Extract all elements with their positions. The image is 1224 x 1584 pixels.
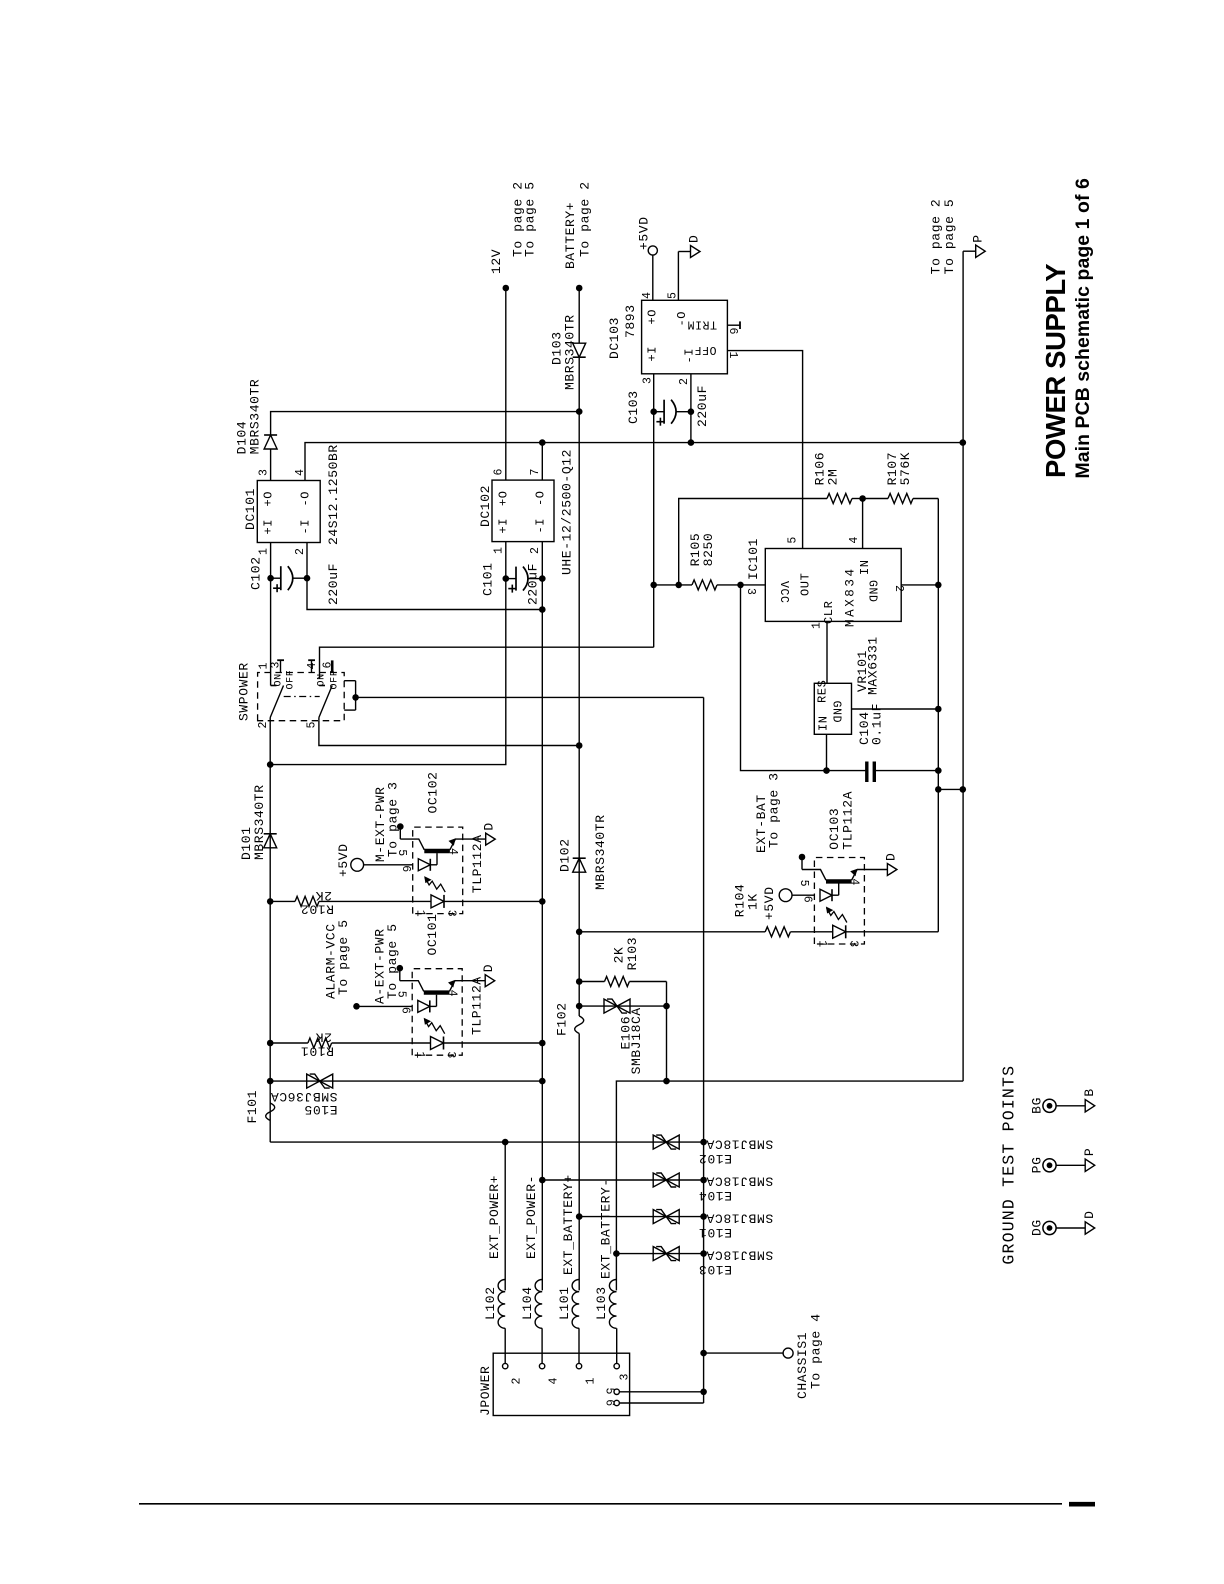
svg-text:P: P [971, 234, 986, 242]
svg-text:MBRS340TR: MBRS340TR [248, 379, 263, 455]
svg-text:6: 6 [726, 328, 739, 336]
junction E104 / EXT_POWER- [539, 1177, 546, 1184]
junction chassis stub [700, 1350, 707, 1357]
footer rule [139, 1503, 1062, 1505]
svg-text:POWER SUPPLY: POWER SUPPLY [1040, 264, 1071, 478]
wire +BAT node to DC103 +I [653, 374, 655, 647]
svg-text:F102: F102 [555, 1002, 570, 1036]
svg-text:SMBJ18CA: SMBJ18CA [706, 1248, 773, 1263]
svg-text:MBRS340TR: MBRS340TR [252, 784, 267, 860]
svg-text:3: 3 [445, 910, 458, 918]
svg-text:R103: R103 [625, 937, 640, 971]
TVS diode E106 [579, 1005, 666, 1007]
svg-text:L103: L103 [594, 1286, 609, 1320]
wire DC101 +O / diode D104 branch [270, 449, 272, 481]
fuse F102 [575, 1016, 584, 1034]
svg-text:7893: 7893 [623, 304, 638, 338]
wire switch pin1 to DC101 +I [270, 543, 272, 673]
wire JPOWER pin6 to chassis rail [619, 1402, 703, 1404]
switch common bracket to chassis [344, 709, 355, 711]
supervisor IC101 (MAX834) [744, 536, 905, 629]
svg-text:220uF: 220uF [526, 563, 541, 605]
optocoupler OC103 [797, 853, 899, 948]
svg-text:3: 3 [619, 1373, 632, 1381]
svg-text:2: 2 [529, 546, 542, 554]
svg-text:3: 3 [846, 940, 859, 948]
svg-text:1: 1 [414, 910, 427, 918]
svg-text:2M: 2M [825, 469, 840, 486]
wire VR101 IN stub [826, 734, 828, 770]
wire VR101 RES to IC101 CLR [826, 621, 828, 683]
svg-text:+I: +I [646, 346, 660, 362]
inductor L102 [498, 1280, 505, 1329]
svg-text:IN: IN [858, 559, 872, 575]
TVS diode E103 [616, 1253, 703, 1255]
svg-text:4: 4 [445, 990, 458, 998]
wire BATTERY+ rail y=579 [578, 1034, 580, 1291]
TVS diode E105 [270, 1080, 542, 1082]
wire GND to P link [938, 788, 963, 790]
svg-text:4: 4 [848, 536, 861, 544]
svg-text:EXT_POWER-: EXT_POWER- [524, 1175, 539, 1259]
svg-text:IN: IN [817, 715, 831, 731]
power +5VD (OC103) [779, 889, 792, 902]
test point BG [1043, 1099, 1056, 1112]
net flag D (DC103 -O) [677, 252, 679, 301]
junction R106/R107/IN [859, 495, 866, 502]
svg-text:DC103: DC103 [607, 317, 622, 359]
svg-text:6: 6 [399, 865, 412, 873]
resistor R107 [863, 498, 888, 500]
svg-text:SMBJ18CA: SMBJ18CA [629, 1007, 644, 1074]
wire chassis rail riser [356, 696, 704, 698]
svg-text:GND: GND [830, 701, 843, 724]
svg-text:-O: -O [299, 491, 313, 507]
wire EXT_POWER+ y=505 [504, 1142, 506, 1290]
svg-text:TLP112A: TLP112A [470, 976, 485, 1035]
wire VR101 GND stub [852, 708, 939, 710]
svg-text:To page 3: To page 3 [386, 781, 401, 857]
svg-text:C102: C102 [249, 556, 264, 590]
svg-text:+O: +O [262, 491, 276, 507]
svg-text:5: 5 [306, 721, 319, 729]
svg-text:1: 1 [815, 940, 828, 948]
svg-text:L102: L102 [483, 1286, 498, 1320]
svg-text:4: 4 [294, 468, 307, 476]
fuse F101 [266, 1103, 275, 1121]
resistor R103 [579, 981, 604, 983]
wire JPOWER pin5 to chassis rail [619, 1391, 703, 1393]
node 12V [503, 285, 510, 292]
optocoupler OC102 [395, 822, 497, 917]
svg-text:+I: +I [497, 518, 511, 534]
svg-text:4: 4 [641, 291, 654, 299]
footer page dash [1069, 1502, 1095, 1507]
wire GND line y=938 [937, 499, 939, 932]
wire EXT_BATTERY- y=616 [616, 1081, 963, 1290]
svg-text:F101: F101 [245, 1090, 260, 1124]
wire E106/R103 to ground link [666, 982, 668, 1082]
svg-text:6: 6 [493, 468, 506, 476]
svg-text:R102: R102 [300, 902, 334, 917]
svg-text:5: 5 [797, 880, 810, 888]
net flag P [963, 250, 976, 252]
svg-text:To page 5: To page 5 [385, 923, 400, 999]
svg-text:1: 1 [258, 547, 271, 555]
switch mechanical link [284, 696, 320, 698]
wire JPOWER pin4 to L104 [541, 1328, 543, 1363]
svg-text:MBRS340TR: MBRS340TR [563, 314, 578, 390]
svg-text:C103: C103 [626, 390, 641, 424]
TVS diode E101 [579, 1216, 703, 1218]
pin 6 TRIM stub [727, 324, 740, 326]
capacitor C103 [654, 411, 664, 413]
svg-text:SMBJ18CA: SMBJ18CA [706, 1174, 773, 1189]
svg-text:C101: C101 [481, 562, 496, 596]
node ALARM-VCC [353, 1003, 360, 1010]
svg-text:B: B [1082, 1088, 1097, 1096]
test point DG [1043, 1221, 1056, 1234]
wire JPOWER pin2 to L102 [504, 1328, 506, 1363]
svg-text:+5VD: +5VD [336, 843, 351, 877]
svg-text:2: 2 [892, 585, 905, 593]
svg-text:BATTERY+: BATTERY+ [563, 202, 578, 269]
svg-text:3: 3 [270, 661, 283, 669]
svg-text:+I: +I [262, 519, 276, 535]
svg-text:MBRS340TR: MBRS340TR [593, 814, 608, 890]
svg-text:4: 4 [848, 878, 861, 886]
diode D103 [573, 343, 586, 357]
wire OC101 LED return to ground rail [462, 1042, 542, 1044]
svg-text:D: D [482, 822, 497, 830]
svg-text:+O: +O [497, 490, 511, 506]
svg-text:2K: 2K [315, 888, 332, 903]
svg-text:D: D [687, 235, 702, 243]
svg-text:DC101: DC101 [243, 488, 258, 530]
wire IC101 IN to R106/R107 [862, 499, 864, 549]
svg-text:SMBJ18CA: SMBJ18CA [706, 1137, 773, 1152]
svg-text:4: 4 [306, 662, 319, 670]
test point PG [1043, 1159, 1056, 1172]
svg-text:-O: -O [534, 490, 548, 506]
svg-text:SMBJ18CA: SMBJ18CA [706, 1211, 773, 1226]
inductor L101 [572, 1280, 579, 1329]
wire DC103 -I [690, 374, 692, 443]
junction 12V feed [267, 761, 274, 768]
resistor R105 [654, 584, 692, 586]
wire JPOWER pin3 to L103 [616, 1328, 618, 1363]
power +5VD (DC103) [652, 255, 654, 300]
svg-text:-I: -I [299, 519, 313, 535]
TVS diode E104 [542, 1179, 703, 1181]
voltage monitor VR101 (MAX6331) [814, 680, 851, 735]
svg-text:BG: BG [1029, 1097, 1044, 1114]
optocoupler OC101 [395, 964, 497, 1059]
svg-text:2K: 2K [315, 1030, 332, 1045]
svg-text:6: 6 [603, 1399, 616, 1407]
svg-text:OFF: OFF [286, 670, 297, 690]
svg-text:OFF: OFF [330, 670, 341, 690]
wire DC101 -O rail (to P net) [305, 443, 963, 481]
svg-text:DG: DG [1029, 1219, 1044, 1236]
svg-text:1: 1 [811, 621, 824, 629]
svg-text:To page 5: To page 5 [942, 199, 957, 275]
capacitor C101 [506, 578, 516, 580]
wire IC101 GND stub [901, 584, 938, 586]
connector JPOWER [493, 1353, 631, 1415]
wire ground sense branch [741, 585, 867, 771]
wire switch pin5 down to BATTERY+ rail [319, 721, 579, 746]
wire chassis rail y=703.6 [703, 697, 705, 1403]
node BATTERY+ [576, 285, 583, 292]
power +5VD (OC102) [351, 858, 364, 871]
svg-text:SMBJ36CA: SMBJ36CA [270, 1089, 337, 1104]
diode D104 [264, 435, 277, 449]
diode D102 [573, 858, 586, 872]
svg-text:VCC: VCC [777, 581, 790, 604]
svg-text:OC102: OC102 [426, 771, 441, 813]
capacitor C104 [865, 762, 868, 783]
svg-text:TRIM: TRIM [687, 318, 717, 331]
svg-text:3: 3 [444, 1051, 457, 1059]
svg-text:D: D [1082, 1210, 1097, 1218]
svg-text:D102: D102 [558, 838, 573, 872]
svg-text:EXT_POWER+: EXT_POWER+ [487, 1175, 502, 1259]
svg-text:1K: 1K [745, 893, 760, 910]
resistor R102 [270, 900, 295, 902]
resistor R106 [827, 494, 852, 504]
svg-text:1: 1 [413, 1051, 426, 1059]
wire P rail y=963 [962, 251, 964, 1081]
svg-text:TLP112A: TLP112A [841, 791, 856, 850]
svg-text:To page 4: To page 4 [809, 1313, 824, 1389]
svg-text:SWPOWER: SWPOWER [237, 662, 252, 721]
svg-text:2: 2 [294, 547, 307, 555]
svg-text:2: 2 [257, 721, 270, 729]
capacitor C102 [271, 577, 281, 579]
svg-text:1: 1 [585, 1377, 598, 1385]
wire DC102 -O to -O rail [541, 443, 543, 481]
svg-text:RES: RES [816, 680, 830, 703]
svg-text:ON: ON [317, 673, 328, 686]
junction R105/ground-sense [737, 582, 744, 589]
svg-text:1: 1 [493, 546, 506, 554]
svg-text:24S12.1250BR: 24S12.1250BR [326, 444, 341, 545]
svg-text:To page 5: To page 5 [523, 181, 538, 257]
svg-text:+O: +O [646, 309, 660, 325]
svg-text:1: 1 [726, 352, 739, 360]
svg-text:Main PCB schematic page 1 of 6: Main PCB schematic page 1 of 6 [1072, 178, 1094, 479]
svg-text:P: P [1082, 1148, 1097, 1156]
svg-text:To page 5: To page 5 [336, 919, 351, 995]
diode D101 [264, 834, 277, 848]
svg-text:3: 3 [642, 376, 655, 384]
svg-text:576K: 576K [898, 452, 913, 486]
svg-text:-O: -O [675, 311, 689, 327]
svg-text:EXT_BATTERY+: EXT_BATTERY+ [561, 1174, 576, 1275]
wire main power rail (F101 output) y=270 [269, 721, 271, 1142]
svg-text:OFF: OFF [694, 343, 717, 356]
wire DC101 -I to ground rail [307, 543, 542, 610]
wire OC102 LED return to ground rail [463, 900, 543, 902]
wire 12V output (DC102 +O) [505, 288, 507, 480]
svg-text:GROUND TEST POINTS: GROUND TEST POINTS [1000, 1065, 1019, 1265]
wire DC103 OFF to IC101 OUT [727, 351, 802, 549]
svg-text:3: 3 [744, 588, 757, 596]
switch pin 3 stub [280, 660, 282, 672]
dc-dc converter DC103 [641, 291, 739, 385]
svg-text:GND: GND [866, 580, 879, 603]
wire DC102 +I from switched 12V [270, 542, 506, 765]
resistor R101 [270, 1042, 308, 1044]
switch SWPOWER (DPDT) [237, 647, 654, 728]
switch pole2 contact stub [331, 660, 334, 672]
svg-text:5: 5 [787, 536, 800, 544]
svg-text:4: 4 [446, 848, 459, 856]
junction C101/E105/OC102 on ground rail [539, 606, 546, 613]
svg-text:R101: R101 [300, 1043, 334, 1058]
wire JPOWER pin1 to L101 [578, 1328, 580, 1363]
TVS diode E102 [270, 1141, 703, 1143]
svg-text:3: 3 [258, 468, 271, 476]
svg-text:L101: L101 [557, 1286, 572, 1320]
switch pin 4 stub [311, 660, 313, 672]
svg-text:OUT: OUT [799, 573, 813, 596]
junction -O rail / P rail [960, 439, 967, 446]
svg-text:To page 3: To page 3 [767, 772, 782, 848]
svg-text:D: D [883, 853, 898, 861]
svg-text:6: 6 [801, 896, 814, 904]
svg-text:L104: L104 [520, 1286, 535, 1320]
svg-text:TLP112A: TLP112A [470, 834, 485, 893]
svg-text:MAX834: MAX834 [844, 566, 858, 627]
wire R106 sense branch [679, 499, 827, 585]
inductor L104 [535, 1280, 542, 1329]
svg-text:2: 2 [511, 1377, 524, 1385]
inductor L103 [609, 1280, 616, 1329]
wire ground rail y=542 (EXT_POWER- / -O) [541, 542, 543, 1291]
svg-text:+5VD: +5VD [637, 216, 652, 250]
chassis CHASSIS1 [704, 1352, 784, 1354]
svg-text:7: 7 [529, 468, 542, 476]
svg-text:PG: PG [1029, 1156, 1044, 1173]
svg-text:+5VD: +5VD [762, 886, 777, 920]
svg-text:220uF: 220uF [326, 563, 341, 605]
svg-text:To page 2: To page 2 [578, 181, 593, 257]
svg-text:UHE-12/2500-Q12: UHE-12/2500-Q12 [560, 449, 575, 575]
svg-text:4: 4 [548, 1377, 561, 1385]
svg-text:5: 5 [667, 291, 680, 299]
svg-text:MAX6331: MAX6331 [866, 636, 881, 695]
resistor R104 [579, 931, 765, 933]
wire OC103 LED return to GND line [865, 931, 939, 933]
svg-text:2: 2 [678, 377, 691, 385]
svg-text:EXT_BATTERY-: EXT_BATTERY- [598, 1178, 613, 1279]
svg-text:-I: -I [534, 518, 548, 534]
svg-text:6: 6 [399, 1007, 412, 1015]
svg-text:CLR: CLR [822, 601, 836, 624]
svg-text:JPOWER: JPOWER [478, 1366, 493, 1416]
svg-text:D: D [481, 964, 496, 972]
svg-text:DC102: DC102 [478, 485, 493, 527]
dc-dc converter DC101 [257, 468, 320, 555]
svg-text:220uF: 220uF [695, 385, 710, 427]
junction D104/BATTERY+ [576, 408, 583, 415]
svg-text:5: 5 [603, 1388, 616, 1396]
svg-text:8250: 8250 [701, 533, 716, 567]
svg-text:IC101: IC101 [746, 538, 761, 580]
svg-text:12V: 12V [489, 249, 504, 274]
svg-text:ON: ON [274, 673, 285, 686]
svg-text:OC101: OC101 [425, 913, 440, 955]
svg-text:0.1uF: 0.1uF [870, 703, 885, 745]
junction E106 ground branch [663, 1078, 670, 1085]
switch pin 6 wire to battery node [320, 647, 654, 679]
dc-dc converter DC102 [492, 468, 554, 554]
